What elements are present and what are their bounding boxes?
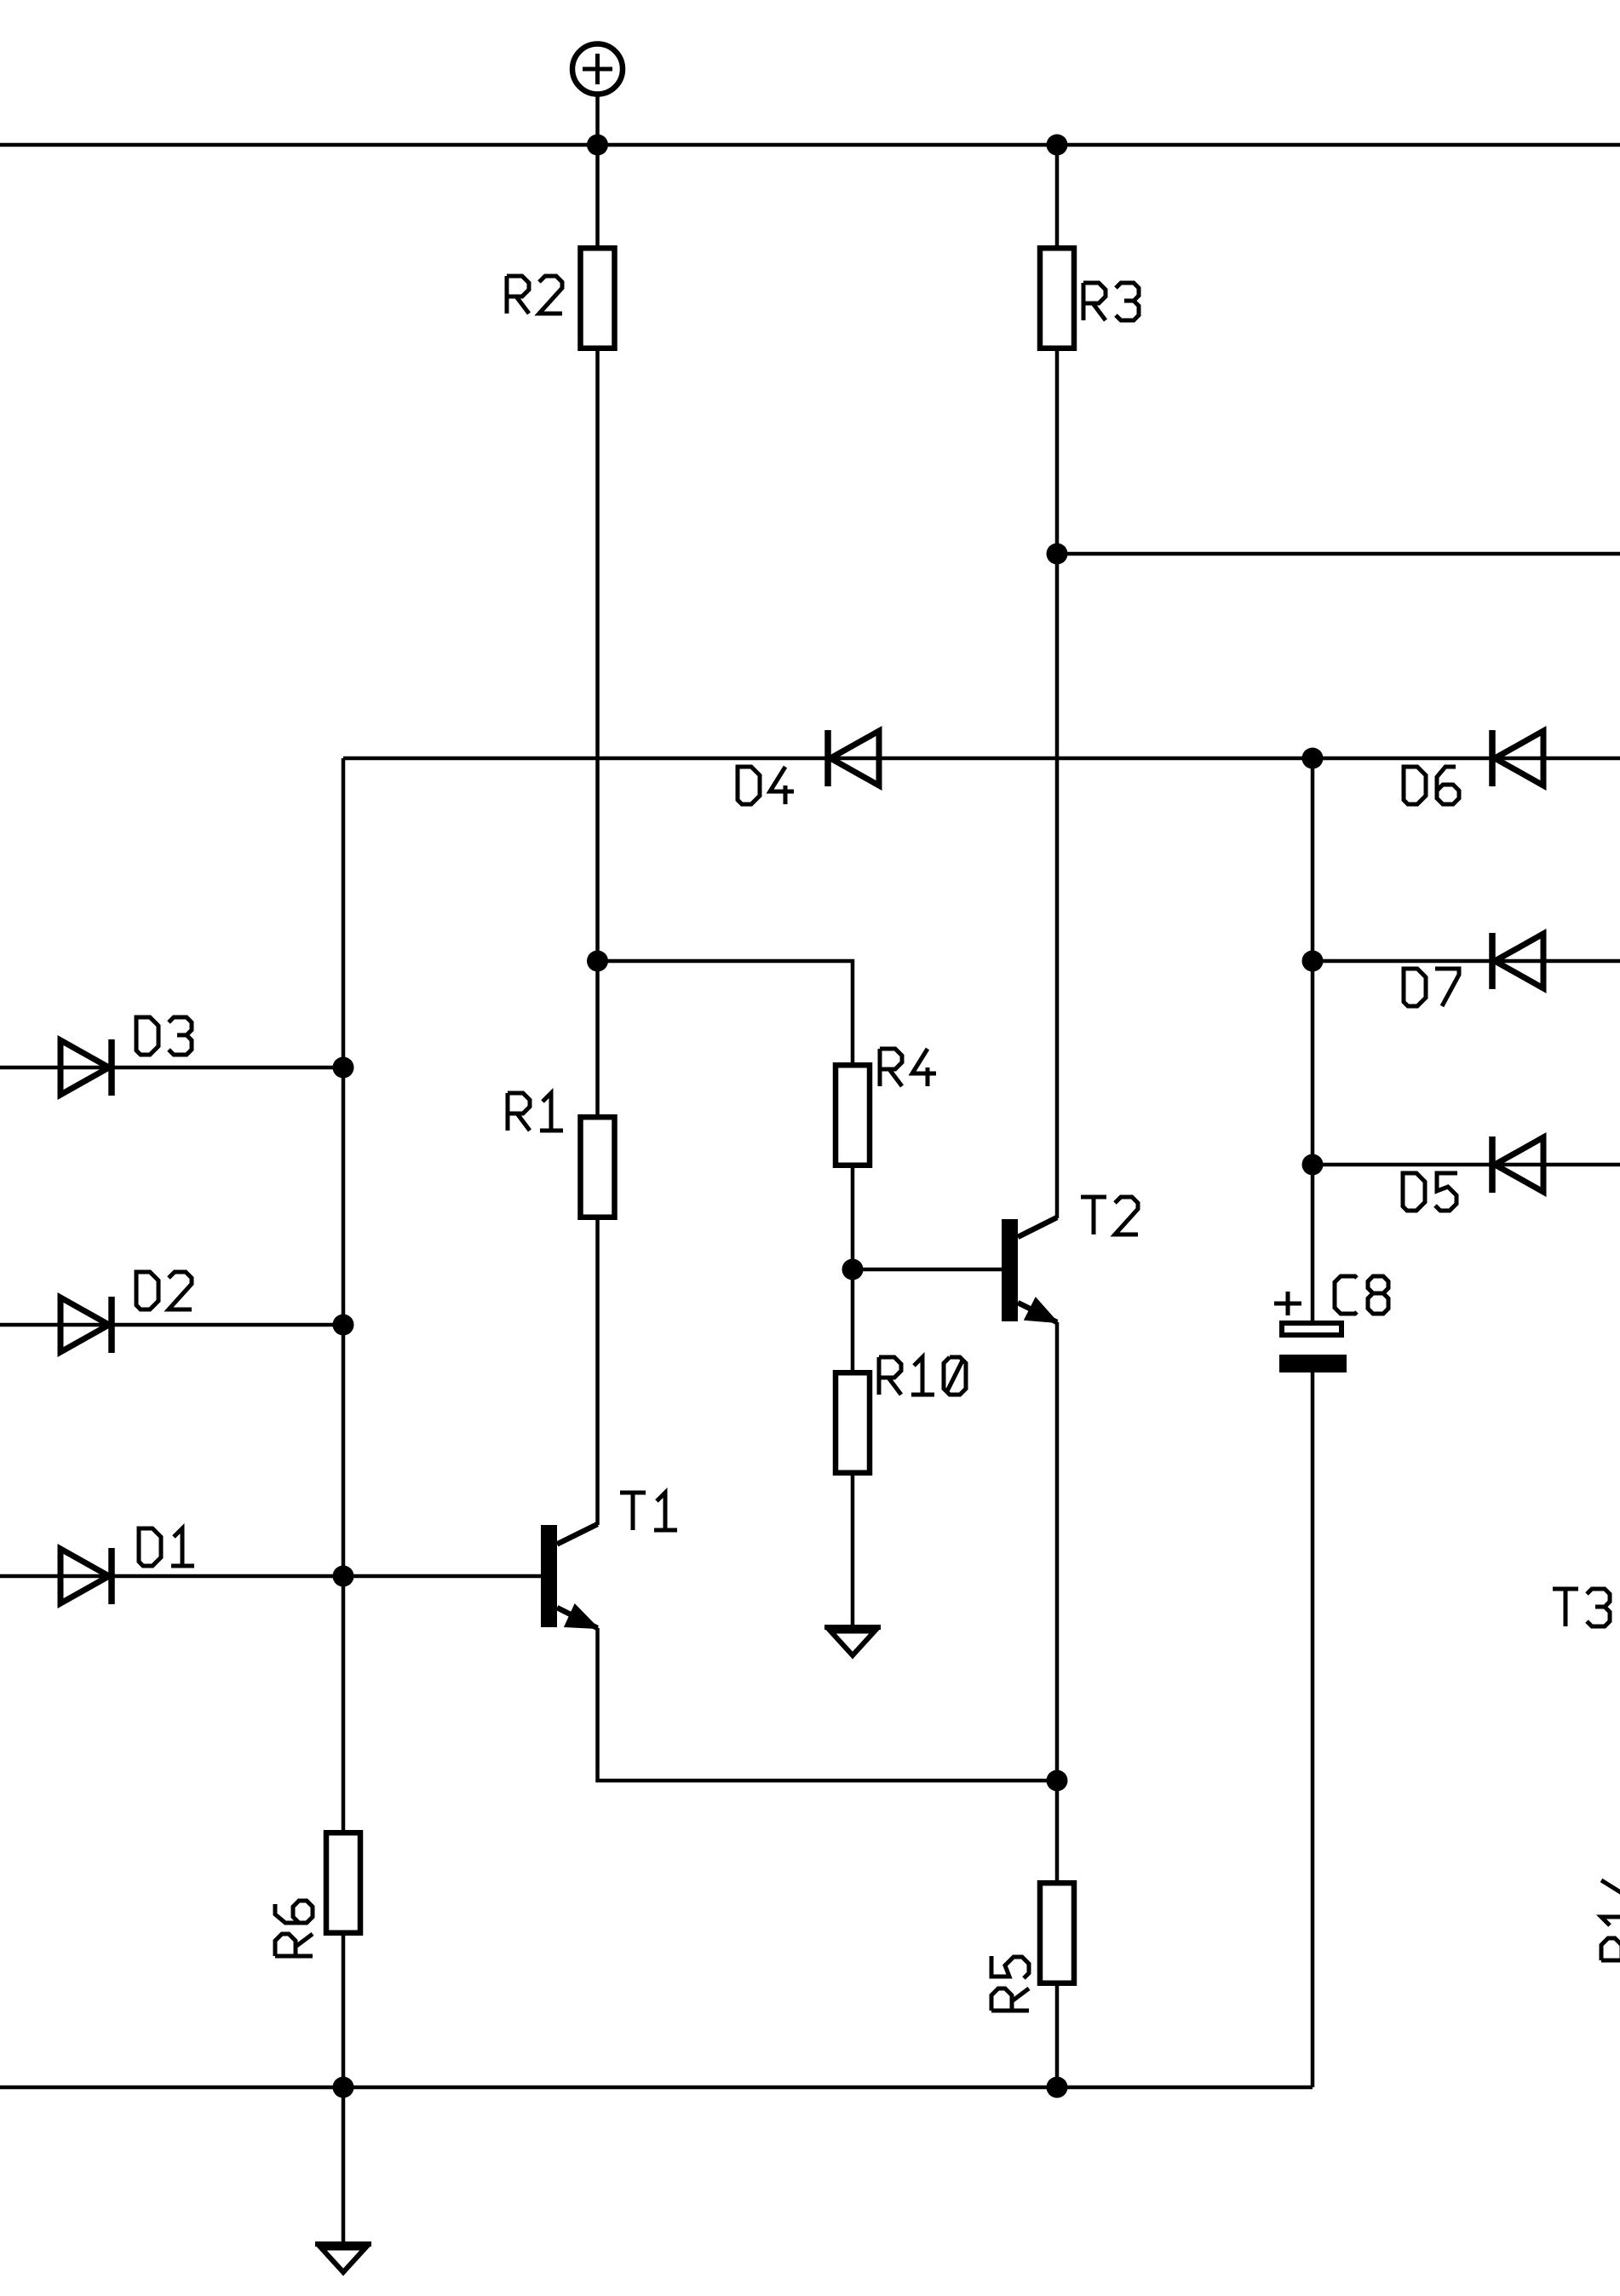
wire D3 line [0, 1066, 343, 1070]
diode D1 [60, 1548, 112, 1604]
wire bottom rail [0, 2086, 1313, 2090]
diode D5 [1492, 1136, 1543, 1193]
label R2 [507, 276, 562, 314]
label D7 [1404, 969, 1459, 1006]
label D1 [139, 1528, 194, 1566]
node D7 junction [1302, 951, 1324, 972]
resistor R4 [836, 1065, 870, 1165]
wire R3 top lead [1055, 145, 1060, 248]
label R10 [879, 1357, 966, 1395]
label R5 (rotated) [991, 1956, 1029, 2011]
wire junction to R4 [598, 961, 853, 1062]
label D4 [738, 767, 794, 804]
label R4 [880, 1049, 936, 1086]
diode D3 [60, 1039, 112, 1096]
node supply-R2 junction [587, 135, 608, 156]
node D2 junction [333, 1315, 354, 1336]
capacitor C8 [1274, 1292, 1347, 1372]
wire R5 bottom lead [1055, 1983, 1060, 2087]
label R1 [508, 1093, 563, 1131]
node R3 output junction [1047, 544, 1068, 565]
transistor T2 [1002, 1217, 1057, 1322]
resistor R6 [326, 1833, 360, 1933]
resistor R3 [1040, 248, 1074, 348]
wire R1 bottom lead [595, 1217, 600, 1525]
diode D6 [1492, 730, 1543, 786]
wire C8 to bottom rail [1311, 1372, 1315, 2087]
wire output line right [1057, 552, 1620, 556]
wire R2 bottom to T1 collector [595, 348, 600, 1114]
wire R2 top lead [595, 145, 600, 248]
diode D2 [60, 1297, 112, 1353]
node D5 junction [1302, 1154, 1324, 1176]
resistor R10 [836, 1372, 870, 1473]
node supply-R3 junction [1047, 135, 1068, 156]
label R6 (rotated) [275, 1901, 313, 1956]
diode D7 [1492, 933, 1543, 989]
node R1-R2 junction [587, 951, 608, 972]
wire D6 line [1313, 757, 1620, 761]
wire R3 bottom to T2 collector [1055, 348, 1060, 1218]
wire D5 line [1313, 1163, 1620, 1167]
supply + terminal [572, 44, 623, 146]
transistor T1 [541, 1524, 598, 1628]
wire R4 bottom lead [851, 1165, 855, 1370]
label R3 [1083, 283, 1139, 320]
ground below rail [315, 2244, 371, 2272]
wire R10 to ground [851, 1476, 855, 1627]
node R6 bottom rail junction [333, 2077, 354, 2098]
resistor R5 [1040, 1883, 1074, 1983]
resistor R2 [581, 248, 615, 348]
node D1 junction [333, 1566, 354, 1587]
node emitter line to R5 junction [1047, 1770, 1068, 1792]
label T3 [1553, 1589, 1610, 1626]
label T1 [620, 1493, 677, 1530]
label D5 [1403, 1173, 1457, 1211]
wire T2 emitter down [1055, 1322, 1060, 1781]
ground below R10 [824, 1627, 881, 1655]
resistor R1 [581, 1117, 615, 1217]
wire T2 base [853, 1268, 1002, 1272]
wire D7 line [1313, 959, 1620, 964]
label D3 [136, 1017, 192, 1055]
wire top supply rail [0, 143, 1620, 147]
label D6 [1404, 767, 1459, 804]
label T2 [1081, 1197, 1138, 1234]
wire rail to ground [342, 2087, 346, 2244]
node D3 junction [333, 1057, 354, 1079]
node R4-R10-T2 base junction [842, 1259, 864, 1280]
label D2 [136, 1272, 192, 1309]
wire D2 line [0, 1323, 343, 1327]
label R14 (rotated, clipped at right edge) [1601, 1872, 1620, 1960]
wire right bus [1311, 758, 1315, 1321]
wire R6 bottom lead [342, 1934, 346, 2087]
wire D4 line [343, 757, 1313, 761]
wire R5 top lead [1055, 1781, 1060, 1881]
wire left bus [342, 758, 346, 1832]
wire T1 emitter to R5 top [598, 1628, 1058, 1781]
node D4-D6 junction [1302, 748, 1324, 769]
diode D4 [828, 730, 879, 786]
node R5 bottom rail junction [1047, 2077, 1068, 2098]
wire D1 line [0, 1574, 541, 1579]
label C8 [1335, 1276, 1388, 1314]
